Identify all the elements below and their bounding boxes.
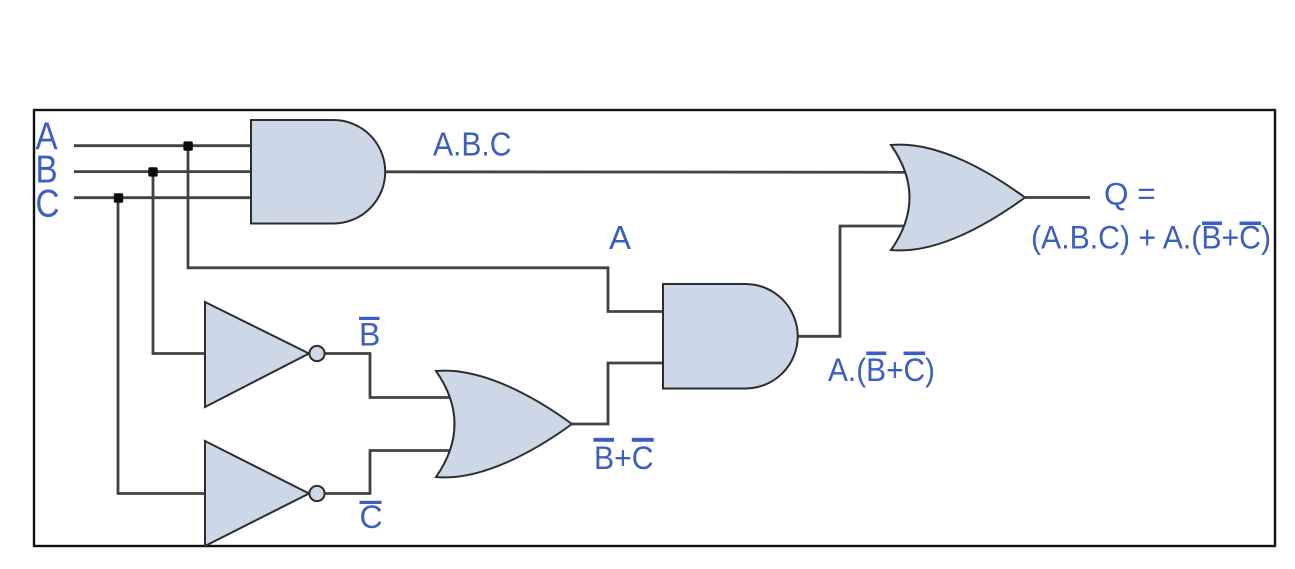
wire AND2 output to OR2 bottom input [798, 226, 915, 336]
overbar of C-bar [360, 501, 382, 504]
overbar of B in A.(B-bar+C-bar) [866, 352, 886, 356]
svg-text:C: C [360, 499, 383, 535]
junction dot on wire C [114, 193, 123, 202]
wire NOT2 output to OR1 bottom input [324, 451, 455, 494]
overbar of B in formula [1202, 222, 1222, 226]
svg-text:A.(B+C): A.(B+C) [828, 352, 935, 388]
svg-text:Q =: Q = [1104, 176, 1156, 212]
svg-text:(A.B.C) + A.(B+C): (A.B.C) + A.(B+C) [1031, 220, 1271, 256]
wire OR1 output to AND2 bottom input [572, 363, 663, 424]
junction dot on wire B [148, 167, 157, 176]
junction dot on wire A [183, 141, 192, 150]
overbar of C in A.(B-bar+C-bar) [904, 352, 926, 356]
wire branch B to NOT1 [153, 172, 206, 354]
NOT gate U3 (C inverter) [205, 441, 325, 546]
wire input A [74, 144, 252, 147]
wire branch C to NOT2 [118, 198, 206, 494]
wire input B [74, 170, 252, 173]
OR gate U6 (output Q) [891, 145, 1025, 251]
wire OR2 output Q [1025, 196, 1090, 199]
overbar of B-bar [359, 317, 380, 320]
overbar of C in formula [1240, 222, 1262, 226]
svg-text:B+C: B+C [594, 440, 654, 476]
svg-text:B: B [359, 317, 380, 353]
overbar of B in B-bar+C-bar [594, 438, 615, 442]
svg-text:A: A [609, 219, 631, 256]
wire branch A vertical [188, 146, 663, 312]
wire input C [74, 196, 252, 199]
overbar of C in B-bar+C-bar [632, 438, 654, 442]
border frame [34, 110, 1275, 546]
wire NOT1 output to OR1 top input [324, 354, 455, 398]
wire AND1 output A.B.C to OR2 [385, 170, 915, 173]
AND gate U5 (A.(B'+C')) [663, 284, 798, 389]
OR gate U4 (B'+C') [436, 371, 572, 478]
svg-text:A.B.C: A.B.C [433, 126, 512, 163]
AND gate U1 (3-input A.B.C) [251, 120, 385, 224]
svg-text:C: C [36, 181, 60, 225]
NOT gate U2 (B inverter) [205, 302, 325, 407]
